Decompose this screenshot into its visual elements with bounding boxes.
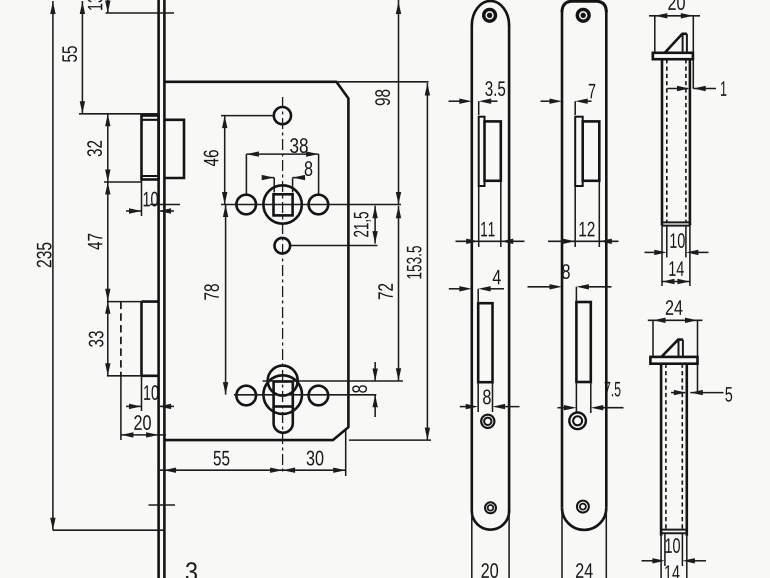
dimension 72 text xyxy=(378,284,393,299)
extension line latch left edge xyxy=(141,180,143,217)
dimension 5 arrow xyxy=(671,392,685,394)
plate-20 latch lip rectangle xyxy=(479,117,485,186)
dimension 24 extension lines xyxy=(652,320,654,357)
plate-20 rounded bottom xyxy=(472,511,509,530)
dimension 24 text (section) xyxy=(666,300,683,315)
dimension 7 extension line xyxy=(574,101,576,115)
latch bolt body inside case xyxy=(164,120,184,178)
horizontal centre line through handle follower xyxy=(221,204,401,206)
plate-24 middle screw hole xyxy=(569,413,586,430)
dimension 32 line xyxy=(107,114,109,182)
deadbolt front face xyxy=(142,302,159,376)
dimension 55 text xyxy=(62,46,77,62)
dimension 235 bottom extension line xyxy=(53,529,166,531)
channel outer extension lines to bottom (24) xyxy=(660,533,662,578)
dimension 3.5 text xyxy=(485,81,505,96)
dimension 32 text xyxy=(87,141,102,157)
dimension 153.5 line xyxy=(426,83,428,440)
dimension 12 line xyxy=(548,240,619,242)
dimension 14 text (section) xyxy=(669,261,683,275)
dimension 10 (latch) text xyxy=(144,192,158,207)
dimension 4 text xyxy=(493,270,501,284)
WC keyhole slot below square xyxy=(274,407,293,433)
plate-24 latch lip rectangle xyxy=(575,117,583,186)
dimension 3.5 arrows xyxy=(449,100,462,102)
dimension 8 slot extension lines xyxy=(477,382,479,412)
dimension 10 (latch) arrows xyxy=(126,210,142,212)
dimension 47 text xyxy=(88,234,102,250)
dimension 7 arrows xyxy=(541,100,552,102)
latch bevel vertical edges (24) xyxy=(678,340,680,357)
latch bolt head (protruding through plate) xyxy=(142,116,159,180)
plate-24 right edge xyxy=(605,10,608,508)
dimension 13 line xyxy=(107,0,109,13)
case channel left wall (section) xyxy=(661,59,664,225)
dimension 8 (WC offset) lower arrow xyxy=(374,395,376,417)
dimension 3.5 extension line xyxy=(478,101,480,115)
dimension 14 line (section) xyxy=(662,281,690,283)
dimension 38 left extension line xyxy=(245,154,247,195)
dimension 8 arrows xyxy=(264,177,275,179)
dimension 10 text (section 24) xyxy=(666,538,680,553)
dimension 38 right extension line xyxy=(318,154,320,195)
dimension 7.5 arrows xyxy=(558,407,567,409)
faceplate back edge line (left view) xyxy=(163,0,166,578)
dimension 11 text xyxy=(481,222,494,236)
plate-20 left edge xyxy=(470,25,473,512)
dimension 1 text xyxy=(721,81,726,95)
dimension 46 line xyxy=(224,116,226,205)
dimension 8 (offset) text xyxy=(562,264,570,279)
dimension 7 text xyxy=(589,84,596,98)
dimension 10 text (section) xyxy=(670,233,684,248)
channel inner extension lines below xyxy=(666,226,668,258)
dimension 46 text xyxy=(204,150,219,166)
dimension 8 (slot width) arrows xyxy=(460,406,468,408)
dimension 11 extension lines xyxy=(478,186,480,247)
plate-24 latch opening rectangle xyxy=(583,121,600,180)
dimension 8 offset extension line xyxy=(575,287,577,302)
upper fixing hole (top) xyxy=(274,107,291,124)
dimension 8 extension lines xyxy=(273,178,275,193)
latch bolt head inner bottom line xyxy=(142,175,159,177)
extension line deadbolt hidden edge below xyxy=(120,376,122,440)
extension line deadbolt front below xyxy=(141,376,143,411)
latch bevel vertical edges xyxy=(682,34,684,53)
dimension 47 line xyxy=(107,182,109,301)
dimension 1 arrow (wall thickness) xyxy=(668,88,689,90)
case channel right wall (section) xyxy=(689,59,692,225)
plate-20 section bar xyxy=(653,53,693,59)
extension line at y=182 xyxy=(104,181,142,183)
dimension 20 extension lines xyxy=(654,16,656,53)
dimension 20 text xyxy=(134,415,151,430)
dimension 21,5 text xyxy=(354,212,371,237)
case channel left wall (section 24) xyxy=(660,364,663,536)
latch bolt head inner top line xyxy=(142,119,159,121)
plate-20 middle screw hole xyxy=(481,415,494,428)
extension of case bottom edge to dimension 153.5 xyxy=(349,439,431,441)
case channel hidden inner walls dashed (24) xyxy=(665,364,667,530)
plate-20 width extension lines xyxy=(471,513,473,578)
dimension 21,5 line xyxy=(374,206,376,244)
WC follower main circle xyxy=(263,375,302,414)
extension line from top hole to dim 46 xyxy=(221,115,274,117)
channel inner extension lines below (24) xyxy=(664,533,666,566)
centre line through WC upper circle xyxy=(263,380,403,382)
dimension 4 extension line xyxy=(477,289,479,303)
latch bevel triangle (section 24) xyxy=(661,340,683,357)
dimension 78 line xyxy=(225,205,227,395)
handle follower circle xyxy=(263,185,301,223)
latch bevel triangle (section) xyxy=(665,34,687,53)
dimension 20 line with arrows xyxy=(121,434,166,436)
dimension 14 text (section 24, clipped) xyxy=(665,565,679,578)
dimension 8 (slot width) text xyxy=(483,389,491,404)
dimension 33 text xyxy=(89,331,104,347)
faceplate front edge line (left view) xyxy=(157,0,160,578)
dimension 11 line xyxy=(456,240,525,242)
plate-24 left edge xyxy=(561,10,564,508)
plate-24 width extension lines xyxy=(561,509,563,578)
lock case outline with chamfered corners xyxy=(165,82,349,440)
dimension 12 extension lines xyxy=(574,186,576,247)
dimension 235 text xyxy=(37,243,52,268)
channel bottom closure lines (24) xyxy=(661,529,687,531)
dimension 5 text xyxy=(725,387,732,402)
dimension 30 right extension line xyxy=(345,431,347,477)
channel bottom closure lines xyxy=(662,221,690,223)
centre line through WC follower xyxy=(234,394,376,396)
dimension 30 line xyxy=(283,469,346,471)
dimension 4 arrows xyxy=(449,288,462,290)
part number 3 xyxy=(186,562,197,578)
dimension 38 line xyxy=(246,153,318,155)
dimension 33 line xyxy=(107,301,109,376)
plate-24 rounded bottom xyxy=(562,508,606,530)
dimension 13 extension line crossing faceplate xyxy=(106,12,175,14)
dimension 98 line xyxy=(398,0,400,205)
dimension 7.5 extension lines xyxy=(575,382,577,413)
vertical centre line of lock (dash-dot) xyxy=(282,97,284,474)
dimension 153.5 text xyxy=(407,246,422,278)
tick on faceplate lower xyxy=(149,504,176,506)
WC spindle upper circle xyxy=(268,366,298,396)
dimension 38 text xyxy=(290,138,308,153)
dimension 8 (WC offset) text xyxy=(352,385,367,393)
dimension 20 line (section) xyxy=(649,15,700,17)
plate-20 rounded top xyxy=(472,1,509,26)
extension line from lower small hole to dim 21.5 xyxy=(291,245,378,247)
dimension 20 text (section top, clipped) xyxy=(668,0,685,10)
dimension 24 text (bottom) xyxy=(576,563,593,578)
dimension 7.5 text xyxy=(605,382,621,397)
deadbolt bottom boundary line xyxy=(107,375,142,377)
plate-24 deadbolt slot xyxy=(576,302,590,382)
dimension 20 text (bottom) xyxy=(482,563,499,578)
dimension 10 (deadbolt) arrows xyxy=(126,405,142,407)
dimension 10 arrows (section) xyxy=(645,251,657,253)
dimension 13 text (clipped) xyxy=(88,0,103,10)
dimension 55 (backset) line xyxy=(159,469,283,471)
tick on faceplate at follower height xyxy=(150,204,180,206)
dimension 10 (deadbolt) text xyxy=(144,385,158,400)
plate-24 rounded-corner top xyxy=(562,1,606,12)
dimension 12 text xyxy=(579,222,594,237)
extension line at y=113.8 (top of latch zone) xyxy=(79,113,160,115)
dimension 8 (WC offset) upper arrow xyxy=(374,362,376,381)
right fixing hole at WC follower xyxy=(309,386,329,406)
channel outer extension lines below xyxy=(661,226,663,286)
deadbolt hidden edge (thrown position) dashed xyxy=(120,302,122,376)
plate-24 top screw hole xyxy=(577,9,589,21)
dimension 72 line xyxy=(398,206,400,381)
plate-24 lower screw hole xyxy=(577,501,589,513)
dimension 55 (backset) text xyxy=(214,451,230,466)
plate-20 deadbolt slot xyxy=(478,303,492,382)
case channel right wall (section 24) xyxy=(685,364,688,536)
deadbolt top boundary line xyxy=(107,301,142,303)
dimension 98 text xyxy=(375,90,390,106)
plate-20 right edge xyxy=(508,25,511,512)
dimension 10 arrows (section 24) xyxy=(642,560,655,562)
dimension 24 line (section) xyxy=(648,319,703,321)
lower small hole below follower xyxy=(275,238,291,254)
dimension 55 vertical line xyxy=(81,1,83,114)
case channel hidden inner walls dashed xyxy=(666,59,668,222)
left fixing hole at WC follower xyxy=(236,386,256,406)
plate-24 section bar xyxy=(650,357,697,364)
dimension 8 (spindle square) text xyxy=(305,161,313,176)
plate-20 latch opening rectangle xyxy=(485,121,501,180)
dimension 235 line xyxy=(52,1,54,530)
dimension 30 text xyxy=(307,451,324,466)
plate-20 lower screw hole xyxy=(485,502,496,513)
plate-20 top screw hole xyxy=(484,9,496,21)
spindle square hole xyxy=(274,194,293,215)
left fixing hole at follower xyxy=(236,195,256,215)
dimension 8 (offset) arrows xyxy=(528,286,552,288)
WC spindle square hole xyxy=(274,382,293,407)
right fixing hole at follower xyxy=(309,195,329,215)
dimension 78 text xyxy=(204,284,219,300)
extension of case top edge to dimension 153.5 xyxy=(338,81,429,83)
